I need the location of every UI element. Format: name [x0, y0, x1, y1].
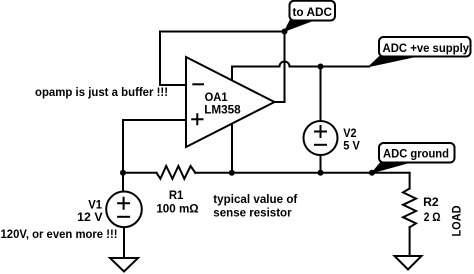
wire V1 top lead	[122, 173, 124, 192]
wire +ve supply with hop over output	[232, 62, 369, 67]
wire feedback left	[159, 32, 161, 86]
wire V2 top lead	[320, 67, 322, 122]
node junction V2 bottom / ground bus	[318, 170, 324, 176]
node junction V2 top / +ve supply	[318, 64, 324, 70]
node junction V1 / plus input	[120, 170, 126, 176]
wire feedback top	[160, 31, 285, 33]
svg-text:LOAD: LOAD	[450, 205, 464, 236]
svg-text:2 Ω: 2 Ω	[424, 210, 441, 224]
wire R2 bottom lead	[409, 227, 411, 256]
svg-text:ADC ground: ADC ground	[383, 147, 449, 161]
node junction ADC ground flag	[369, 170, 375, 176]
svg-text:sense resistor: sense resistor	[213, 206, 292, 220]
wire V2 bottom lead	[320, 155, 322, 173]
wire output vertical	[284, 32, 286, 103]
wire V+ pin	[231, 67, 233, 82]
wire R2 top lead	[409, 173, 411, 189]
V2 minus symbol	[314, 144, 327, 146]
wire ground bus right of R1	[195, 172, 409, 174]
svg-text:ADC +ve supply: ADC +ve supply	[383, 41, 470, 55]
net flag ADC +ve supply	[369, 37, 471, 67]
V1 minus symbol	[117, 216, 130, 218]
svg-text:opamp is just a buffer !!!: opamp is just a buffer !!!	[35, 85, 168, 99]
svg-text:12 V: 12 V	[77, 210, 102, 224]
svg-text:typical value of: typical value of	[213, 192, 298, 206]
svg-text:100 mΩ: 100 mΩ	[156, 201, 199, 215]
net flag ADC ground	[372, 143, 455, 173]
resistor R2	[403, 189, 416, 228]
svg-text:to ADC: to ADC	[293, 5, 333, 19]
svg-text:120V, or even more !!!: 120V, or even more !!!	[1, 227, 118, 241]
node junction V- pin / ground bus	[229, 170, 235, 176]
resistor R1	[157, 166, 196, 179]
wire inverting input stub	[160, 84, 186, 86]
svg-text:5 V: 5 V	[343, 139, 360, 153]
wire V- pin	[231, 124, 233, 173]
node junction output/to ADC	[282, 29, 288, 35]
wire non-inverting input vertical	[122, 120, 124, 173]
op-amp OA1	[186, 57, 275, 147]
voltage source V1	[106, 192, 142, 228]
net flag to ADC	[285, 1, 336, 31]
ground under V1	[110, 258, 138, 272]
wire V1 bottom lead	[123, 227, 125, 258]
V2 plus symbol	[314, 125, 327, 138]
wire ground bus left	[123, 172, 157, 174]
svg-text:R1: R1	[169, 188, 184, 202]
op-amp minus input symbol	[192, 83, 204, 85]
V1 plus symbol	[117, 197, 130, 210]
op-amp plus input symbol	[191, 113, 203, 125]
voltage source V2	[304, 121, 338, 155]
svg-text:LM358: LM358	[204, 103, 241, 117]
svg-text:R2: R2	[423, 195, 439, 209]
wire output stub	[275, 101, 285, 103]
wire non-inverting input horizontal	[123, 119, 186, 121]
ground under R2	[395, 256, 422, 270]
